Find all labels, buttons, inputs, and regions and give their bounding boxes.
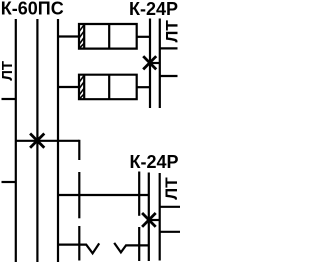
wire line 4 segment c <box>78 226 80 261</box>
wire line 1 vertical <box>15 19 17 262</box>
wire horizontal lower <box>58 194 149 196</box>
wire stub left upper <box>2 98 16 100</box>
wire line C segment b <box>138 227 140 261</box>
wire line C segment a <box>138 172 140 216</box>
svg-text:К-24Р: К-24Р <box>129 0 178 19</box>
equipment block row 2 <box>79 75 137 100</box>
wire exit row1 <box>137 36 150 38</box>
wire connector D-E at X3 <box>149 219 160 221</box>
junction X3 cross <box>142 213 156 227</box>
wire stub right B y76 <box>160 75 178 77</box>
wire entry row1 <box>58 35 79 37</box>
wire V notch 2 and continuation <box>114 243 149 253</box>
wire entry row2 <box>58 86 79 88</box>
wire line 4 segment b <box>78 172 80 218</box>
wire line B vertical top right <box>159 19 161 109</box>
junction X1 cross <box>30 134 44 148</box>
equipment block row 1 <box>79 24 137 49</box>
wire horizontal bottom with V notches <box>58 243 99 253</box>
hatch row 1 <box>79 25 84 48</box>
wire line A vertical top right <box>149 19 151 109</box>
wire line E vertical bottom right <box>159 173 161 261</box>
wire stub right E y207 <box>160 206 180 208</box>
junction X2 cross <box>143 56 156 69</box>
svg-text:ЛТ: ЛТ <box>162 20 180 43</box>
svg-text:ЛТ: ЛТ <box>0 61 16 81</box>
wire line 3 vertical <box>57 19 59 262</box>
wire line 2 vertical <box>36 19 38 262</box>
wire exit row2 <box>137 86 150 88</box>
svg-text:К-60ПС: К-60ПС <box>1 0 64 19</box>
wire line 4 segment a <box>78 140 80 160</box>
wire main horizontal middle <box>16 140 80 142</box>
wire stub left lower <box>2 181 16 183</box>
wire connector A-B at X2 <box>150 62 160 64</box>
wire stub right B y48 <box>160 47 178 49</box>
svg-text:К-24Р: К-24Р <box>130 152 179 172</box>
wire line D vertical bottom right <box>148 173 150 262</box>
wire stub right E y232 <box>160 231 180 233</box>
svg-text:ЛТ: ЛТ <box>162 177 180 200</box>
hatch row 2 <box>79 76 84 99</box>
